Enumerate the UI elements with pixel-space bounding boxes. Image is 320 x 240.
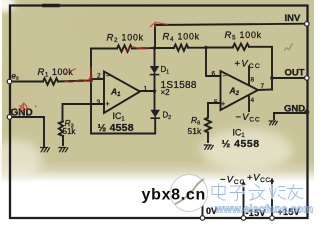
red annotation over R2 (126, 47, 149, 51)
wire pin5 stub to R6 (208, 103, 221, 118)
wire -15V up to -Vcc arrow (243, 183, 245, 216)
svg-text:7: 7 (261, 83, 265, 90)
ground below R3 (58, 148, 68, 153)
svg-text:R4 100k: R4 100k (163, 31, 200, 43)
wire GND right branch (274, 113, 305, 119)
resistor R5 (233, 44, 249, 50)
ground below R6 (204, 145, 214, 150)
wire GND terminal branch (11, 117, 44, 146)
scanned tan paper area (2, 0, 314, 160)
svg-text:½ 4558: ½ 4558 (98, 122, 134, 134)
wire pin8 +Vcc stub (248, 67, 250, 85)
svg-text:+: + (106, 101, 110, 108)
wire pin4 -Vcc stub (248, 96, 250, 112)
wire 0V up (202, 192, 204, 216)
wire INV line from node A up and right (155, 24, 305, 48)
svg-text:INV: INV (285, 13, 302, 24)
terminal +15V (270, 216, 275, 221)
wire pin2 stub (91, 78, 104, 80)
node A junction dot (153, 46, 157, 50)
wire R4 to node B (188, 47, 206, 49)
svg-text:+: + (221, 101, 225, 108)
terminal GND right (304, 110, 309, 115)
svg-text:6: 6 (212, 71, 216, 78)
terminal 0V (200, 216, 205, 221)
wire node A to R4 (155, 47, 175, 49)
red annotation GND text (19, 103, 28, 113)
ground below GND branch (40, 148, 50, 153)
wire top rail R2 segment (91, 48, 117, 50)
svg-text:3: 3 (97, 99, 101, 106)
arrow -Vcc (241, 181, 245, 186)
svg-text:www.elecfans.com: www.elecfans.com (214, 204, 313, 216)
wire R3 to ground (62, 136, 64, 145)
wire OUT branch (272, 77, 305, 79)
diode D1 (150, 66, 160, 75)
wire A2 output to vertical (258, 89, 272, 92)
watermark elecfans glyphs (212, 184, 303, 201)
resistor R2 (117, 45, 132, 51)
node B junction dot (204, 46, 208, 50)
terminal es (7, 79, 12, 84)
inverting input junction dot (89, 79, 93, 83)
svg-text:OUT: OUT (285, 68, 305, 79)
svg-text:51k: 51k (188, 126, 202, 136)
svg-text:−: − (106, 73, 110, 80)
resistor R6 (205, 118, 211, 133)
wire R1 to inverting junction (58, 81, 91, 82)
diode midpoint junction dot (153, 89, 157, 93)
svg-text:×2: ×2 (161, 88, 171, 97)
watermark ybx8 logo circle (171, 175, 208, 212)
svg-text:5: 5 (214, 99, 218, 106)
terminal INV (305, 22, 310, 27)
svg-text:2: 2 (97, 73, 101, 80)
arrow +Vcc (270, 178, 274, 183)
resistor R3 (59, 122, 63, 137)
svg-text:8: 8 (251, 77, 255, 84)
terminal GND left (7, 115, 12, 120)
wire R5 to right corner down to output (249, 47, 272, 90)
wire +15V up to +Vcc arrow (271, 180, 273, 216)
wire pin3 stub to R3 (63, 104, 105, 122)
svg-text:R2 100k: R2 100k (107, 33, 144, 45)
wire D1 to output junction (154, 74, 156, 91)
red annotation R1 wire (64, 67, 93, 83)
resistor R1 (43, 78, 58, 84)
svg-text:R5 100k: R5 100k (225, 30, 262, 42)
wire input es to R1 (11, 81, 43, 83)
terminal -15V (241, 216, 246, 221)
svg-text:GND: GND (11, 108, 33, 119)
wire A1 output to diode node (140, 90, 155, 92)
red dot near GND (35, 105, 37, 107)
pencil squiggle mark (285, 44, 294, 52)
resistor R4 (174, 45, 188, 51)
op-amp A2 (221, 71, 259, 110)
terminal OUT (305, 76, 309, 80)
wire R2 to node A (132, 47, 155, 50)
wire node A down to D1 (154, 48, 156, 66)
output junction dot (270, 76, 274, 80)
svg-text:½ 4558: ½ 4558 (222, 138, 260, 150)
wire output junction down to D2 (154, 91, 156, 110)
wire feedback vertical x91 down to D2 return (91, 49, 155, 134)
svg-text:4: 4 (251, 97, 255, 104)
wire R6 to ground (207, 133, 209, 143)
ground right GND stub (269, 121, 278, 125)
op-amp A1 (104, 72, 140, 114)
diode D2 (150, 110, 160, 119)
svg-text:ybx8.cn: ybx8.cn (142, 187, 207, 204)
frame top thick mark (44, 4, 58, 8)
svg-text:−: − (223, 73, 227, 80)
svg-text:1: 1 (144, 86, 148, 93)
wire pin6 from node B (206, 48, 221, 77)
red annotation INV corner (150, 22, 168, 28)
svg-text:51k: 51k (63, 127, 77, 136)
wire node B to R5 (206, 47, 233, 49)
svg-text:GND: GND (284, 104, 305, 115)
